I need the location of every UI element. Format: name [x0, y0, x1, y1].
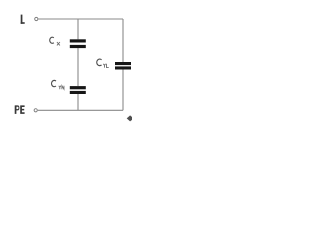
capacitor C_X plates — [70, 39, 86, 48]
label L — [21, 15, 25, 24]
capacitor C_YN plates — [70, 86, 86, 94]
arrow bottom-right — [127, 115, 133, 121]
wire right branch upper segment — [122, 19, 124, 62]
label C_YL — [97, 59, 109, 68]
terminal PE — [34, 109, 37, 112]
label C_X — [50, 37, 60, 45]
wire left branch upper segment — [77, 19, 79, 39]
capacitor C_YL plates — [115, 62, 131, 70]
wire left branch lower segment — [77, 94, 79, 110]
wire right branch lower segment — [122, 70, 124, 111]
terminal L — [35, 17, 38, 20]
label C_YN — [52, 80, 64, 89]
wire left branch middle segment — [77, 48, 79, 86]
wire top L line — [38, 18, 123, 20]
wire bottom PE line — [38, 109, 123, 111]
label PE — [15, 105, 25, 114]
